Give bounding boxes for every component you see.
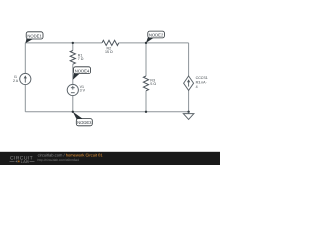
voltage source V1 [67,84,78,95]
wire left vertical upper (NODE1 corner to I1) [24,43,26,74]
svg-text:circuitlab.com / homework Circ: circuitlab.com / homework Circuit 01 [38,152,104,157]
svg-text:http://circuitlab.com/c6bm3a4: http://circuitlab.com/c6bm3a4 [38,158,80,162]
junction dot at NODE2 [145,42,147,44]
svg-text:2 A: 2 A [13,79,19,83]
svg-text:NODE1: NODE1 [27,33,42,38]
ground [183,112,194,120]
junction dot at node A (middle top) [72,42,74,44]
svg-text:15 Ω: 15 Ω [105,50,113,54]
svg-text:NODE3: NODE3 [77,120,92,125]
node label NODE2 [146,31,164,43]
wire top horizontal right segment (R2 to top-right corner) [119,42,189,44]
node label NODE4 [73,67,91,80]
junction dot at ground [187,111,189,113]
wire bottom horizontal [25,111,188,113]
svg-text:NODE4: NODE4 [75,68,90,73]
resistor R1 [70,51,75,65]
wire middle branch lower (V1 to bottom wire) [72,96,74,112]
junction dot at R3 bottom [145,111,147,113]
svg-text:4: 4 [196,85,198,89]
wire right vertical lower (CCCS1 to ground junction) [188,90,190,112]
wire left vertical lower (I1 to bottom-left corner) [24,85,26,112]
wire top horizontal left segment (NODE1 to R2) [25,42,102,44]
current source I1 [20,73,31,84]
node label NODE1 [25,32,43,43]
svg-text:7 Ω: 7 Ω [78,57,84,61]
footer bar [0,152,220,165]
wire middle branch upper (top wire to R1) [72,43,74,51]
resistor R3 [143,76,148,91]
controlled current source CCCS1 (diamond) [184,76,194,90]
CircuitLab logo [10,156,35,165]
wire right vertical upper (top-right corner to CCCS1) [188,43,190,76]
wire R3 branch lower (R3 to bottom wire) [145,91,147,112]
node label NODE3 [73,112,93,126]
resistor R2 [102,40,119,45]
wire R3 branch upper (NODE2 to R3) [145,43,147,76]
wire middle branch mid (R1 to V1 through NODE4) [72,64,74,84]
svg-text:3 V: 3 V [80,89,86,93]
svg-text:NODE2: NODE2 [149,33,164,38]
junction dot at NODE3 (middle bottom) [72,111,74,113]
svg-text:5 Ω: 5 Ω [150,82,156,86]
svg-text:LAB: LAB [21,159,29,164]
